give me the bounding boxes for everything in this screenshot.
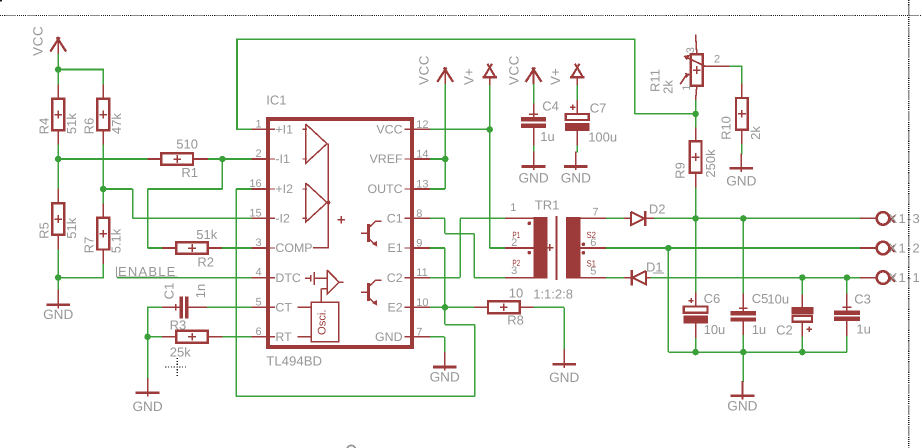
svg-text:GND: GND: [132, 399, 162, 414]
error amp 2 inside IC1: [306, 183, 327, 222]
svg-text:R3: R3: [170, 317, 187, 332]
svg-text:C5: C5: [752, 291, 769, 306]
svg-text:VREF: VREF: [370, 152, 403, 166]
wire R11 bottom to node: [695, 100, 697, 114]
svg-text:VCC: VCC: [417, 55, 432, 85]
svg-text:-I1: -I1: [275, 152, 290, 166]
node junction V+ and pin12: [486, 126, 493, 133]
svg-text:X1-2: X1-2: [889, 241, 921, 256]
svg-text:C2: C2: [776, 322, 793, 337]
svg-text:C2: C2: [387, 271, 403, 285]
wire node5 down-left to R2: [221, 159, 223, 189]
node junction R11-R9: [692, 111, 699, 118]
svg-text:51k: 51k: [64, 217, 79, 238]
svg-text:X1-3: X1-3: [889, 211, 921, 226]
error amp 1 inside IC1: [306, 124, 327, 163]
node junction E1-E2-R8: [442, 304, 449, 311]
svg-text:V+: V+: [462, 68, 477, 85]
svg-text:2: 2: [714, 53, 720, 65]
svg-text:3: 3: [685, 47, 697, 53]
supply VCC above C4: [507, 55, 542, 85]
resistor R2: [162, 227, 222, 269]
ground GND below R3: [132, 337, 162, 414]
wire R4 to node2: [57, 144, 59, 159]
svg-text:R10: R10: [719, 116, 734, 140]
svg-text:51k: 51k: [64, 113, 79, 134]
svg-text:C4: C4: [542, 99, 559, 114]
node junction D2-R9-C6: [692, 215, 699, 222]
svg-text:10: 10: [509, 286, 523, 301]
svg-text:V+: V+: [548, 68, 563, 85]
ground GND under C7: [561, 145, 591, 185]
ground GND under C4: [518, 145, 548, 185]
svg-text:1u: 1u: [856, 321, 870, 336]
svg-text:10u: 10u: [767, 291, 789, 306]
wire R3 to IC pin 6: [222, 336, 251, 338]
node junction R4-R1-R5: [55, 156, 62, 163]
svg-text:TL494BD: TL494BD: [266, 354, 322, 369]
svg-text:D1: D1: [646, 260, 663, 275]
capacitor C7: [565, 100, 617, 145]
svg-text:5: 5: [255, 296, 261, 308]
svg-text:DTC: DTC: [275, 271, 301, 285]
wire pin8 to P2 route: [430, 217, 445, 219]
ground GND under R8: [549, 349, 579, 385]
svg-text:14: 14: [416, 149, 428, 161]
wire V+ to C7: [576, 85, 578, 100]
capacitor C3: [834, 278, 871, 353]
wire C1 left to node6: [148, 306, 163, 308]
wire R2 to IC pin 3: [222, 247, 251, 249]
node junction VCC-left: [55, 66, 62, 73]
wire ENABLE to IC pin 4: [117, 277, 252, 279]
svg-text:C1: C1: [387, 212, 403, 226]
resistor R5: [37, 189, 79, 250]
wire TR1 pin7 to D2: [606, 217, 624, 219]
supply V+ above C7: [548, 64, 585, 85]
wire R5 to node3: [57, 249, 59, 277]
frame corner mark: [0, 0, 2, 1]
wire TR1 pin5 to D1: [606, 277, 624, 279]
svg-text:2: 2: [255, 148, 261, 160]
wire pin11 to TR1 pin1 route: [430, 277, 460, 279]
wire R6 to node4: [102, 144, 104, 189]
svg-text:+I1: +I1: [275, 123, 293, 137]
node junction D2-C5: [740, 215, 747, 222]
node junction R6-R7: [100, 186, 107, 193]
svg-text:51k: 51k: [196, 227, 217, 242]
svg-text:VCC: VCC: [31, 26, 46, 56]
amp output bus to COMP: [327, 144, 329, 248]
svg-text:VCC: VCC: [507, 55, 522, 85]
svg-text:GND: GND: [518, 171, 548, 186]
wire C5 top to D2 node: [742, 218, 744, 293]
svg-text:R8: R8: [507, 312, 524, 327]
svg-text:13: 13: [416, 179, 428, 191]
resistor R7: [82, 203, 124, 264]
wire pin10 to emitter node: [430, 306, 445, 308]
transformer TR1: [505, 197, 606, 280]
svg-text:1: 1: [255, 118, 261, 130]
plus sign inside IC1: [337, 219, 345, 221]
transistor 2 inside IC1: [367, 283, 370, 301]
svg-text:E1: E1: [387, 241, 402, 255]
svg-text:R6: R6: [82, 118, 97, 135]
svg-text:6: 6: [255, 326, 261, 338]
stray glyph bottom: [347, 445, 356, 448]
oscillator block inside IC1: [311, 302, 339, 342]
svg-text:10u: 10u: [704, 322, 726, 337]
wire VCC down to VREF node: [444, 84, 446, 189]
svg-text:VCC: VCC: [376, 123, 402, 137]
wire C1 to IC pin 5: [207, 306, 251, 308]
resistor R10: [719, 84, 763, 145]
svg-text:7: 7: [416, 326, 422, 338]
svg-text:12: 12: [416, 119, 428, 131]
svg-text:11: 11: [416, 267, 427, 279]
svg-text:100u: 100u: [588, 130, 617, 145]
resistor R3: [148, 317, 223, 359]
frame dotted border top: [0, 14, 922, 16]
svg-text:1u: 1u: [752, 322, 766, 337]
ground GND under rail: [727, 352, 757, 414]
node junction C3 top: [844, 274, 851, 281]
wire node to R6 branch: [58, 69, 103, 71]
svg-text:Osci.: Osci.: [316, 309, 328, 334]
resistor R9: [672, 114, 718, 218]
diode D2: [624, 201, 665, 226]
wire D1 to X1-1: [651, 277, 860, 279]
svg-text:R2: R2: [197, 254, 214, 269]
svg-text:C6: C6: [704, 291, 721, 306]
wire node2 to R1: [58, 158, 147, 160]
resistor R4: [37, 84, 79, 144]
svg-text:D2: D2: [649, 201, 666, 216]
IC1 pin leads inside: [269, 128, 275, 130]
node junction C2 top: [799, 274, 806, 281]
wire D2 node down to C6: [695, 218, 697, 292]
node junction C6 rail: [692, 349, 699, 356]
wire C6 to rail: [695, 338, 697, 352]
svg-text:S2: S2: [587, 230, 597, 240]
svg-text:R7: R7: [82, 237, 97, 254]
node junction S2 rail: [665, 245, 672, 252]
wire VCC to node: [57, 54, 59, 70]
DTC comparator inside IC1: [305, 277, 311, 279]
svg-text:5.1k: 5.1k: [109, 228, 124, 253]
ground GND under R10: [726, 144, 756, 188]
wire pin14 to node: [430, 158, 445, 160]
wire R11 wiper to R10: [703, 65, 730, 67]
svg-text:25k: 25k: [170, 345, 191, 360]
svg-text:1: 1: [681, 84, 693, 90]
ground GND left: [43, 278, 73, 323]
svg-text:GND: GND: [727, 399, 757, 414]
svg-text:GND: GND: [375, 330, 403, 344]
svg-text:GND: GND: [726, 173, 756, 188]
svg-text:R5: R5: [37, 222, 52, 239]
wire ground rail: [667, 248, 669, 352]
svg-text:7: 7: [592, 207, 598, 219]
wire TR1 pin6 to X1-2: [606, 247, 668, 249]
wire pin13 to node: [430, 188, 445, 190]
svg-text:1:1:2:8: 1:1:2:8: [533, 286, 573, 301]
svg-text:R1: R1: [181, 165, 198, 180]
svg-text:2k: 2k: [748, 126, 763, 140]
svg-text:GND: GND: [561, 171, 591, 186]
capacitor C4: [521, 99, 559, 146]
svg-text:S1: S1: [587, 259, 597, 269]
resistor R1: [148, 136, 208, 180]
svg-text:250k: 250k: [703, 149, 718, 178]
capacitor C5: [731, 291, 769, 337]
wire R8 to ground: [534, 306, 565, 308]
svg-text:RT: RT: [275, 330, 292, 344]
wire emitter node to R8: [445, 306, 474, 308]
node junction VREF-OUTC: [442, 156, 449, 163]
svg-text:8: 8: [416, 208, 422, 220]
transistor 1 inside IC1: [367, 224, 370, 242]
svg-text:P1: P1: [512, 230, 520, 240]
svg-text:1n: 1n: [193, 284, 208, 298]
svg-text:1: 1: [510, 202, 516, 214]
svg-text:15: 15: [249, 207, 261, 219]
frame dotted border right: [908, 0, 910, 448]
node junction C2 rail: [799, 349, 806, 356]
svg-text:R4: R4: [37, 118, 52, 135]
diode D1: [624, 260, 664, 286]
svg-text:C3: C3: [854, 292, 871, 307]
wire node4 to pin15 route: [103, 188, 132, 190]
svg-text:47k: 47k: [109, 113, 124, 134]
node junction C5 rail: [740, 349, 747, 356]
resistor R6: [82, 84, 124, 144]
svg-text:GND: GND: [549, 370, 579, 385]
svg-text:4: 4: [255, 267, 261, 279]
wire node2 down to R5: [57, 159, 59, 189]
connector X1-1: [860, 270, 921, 285]
wire feedback loop to pin16: [444, 307, 446, 324]
svg-text:C1: C1: [162, 283, 177, 300]
capacitor C2: [767, 278, 813, 353]
svg-text:+I2: +I2: [275, 182, 293, 196]
wire S2 node to X1-2: [668, 247, 860, 249]
svg-text:16: 16: [249, 178, 261, 190]
svg-text:3: 3: [255, 237, 261, 249]
supply V+ above transformer: [462, 64, 498, 85]
svg-text:10: 10: [416, 297, 428, 309]
svg-text:IC1: IC1: [266, 92, 286, 107]
node junction R5-R7-GND: [55, 274, 62, 281]
svg-text:C7: C7: [590, 100, 607, 115]
wire node3 to R7 bottom: [58, 277, 103, 279]
cursor crosshair: [165, 358, 187, 378]
svg-text:9: 9: [416, 238, 422, 250]
wire R7 top to node4: [102, 189, 104, 203]
svg-text:510: 510: [176, 136, 198, 151]
svg-text:P2: P2: [512, 258, 520, 268]
svg-text:COMP: COMP: [275, 241, 312, 255]
svg-text:2k: 2k: [661, 80, 676, 94]
node junction C1-R3-GND: [144, 334, 151, 341]
connector X1-3: [860, 211, 921, 226]
supply VCC symbol left: [31, 26, 67, 56]
svg-text:GND: GND: [43, 307, 73, 322]
wire D2 to X1-3: [654, 217, 860, 219]
svg-text:R9: R9: [672, 162, 687, 179]
svg-text:X1-1: X1-1: [889, 270, 921, 285]
op-amp IC1 body: [268, 119, 412, 347]
ground GND under IC pin7: [430, 352, 460, 385]
svg-text:-I2: -I2: [275, 212, 290, 226]
svg-text:TR1: TR1: [535, 197, 560, 212]
wire R1 to node5: [208, 158, 223, 160]
svg-text:1u: 1u: [540, 129, 554, 144]
wire pin9 down to emitter node: [430, 247, 445, 249]
wire node down to R4: [57, 70, 59, 85]
connector X1-2: [860, 241, 921, 256]
trimmer R11: [647, 35, 720, 101]
wire pin12 to V+ node: [430, 128, 490, 130]
capacitor C6: [683, 291, 725, 338]
capacitor C1: [162, 283, 208, 319]
wire IC pin1 up and across top: [237, 128, 251, 130]
svg-text:OUTC: OUTC: [367, 182, 402, 196]
wire IC pin7 to ground: [430, 336, 445, 338]
wire C5 to rail: [742, 335, 744, 352]
resistor R8: [474, 286, 534, 328]
svg-text:CT: CT: [275, 301, 292, 315]
wire node5 to IC pin 2: [222, 158, 251, 160]
wire VCC to C4: [533, 84, 535, 103]
svg-text:E2: E2: [387, 301, 402, 315]
svg-text:GND: GND: [430, 369, 460, 384]
node junction R1-pin2: [219, 156, 226, 163]
net label ENABLE: [117, 264, 178, 279]
wire V+ down to P1: [489, 85, 491, 248]
supply VCC above IC: [417, 55, 454, 85]
